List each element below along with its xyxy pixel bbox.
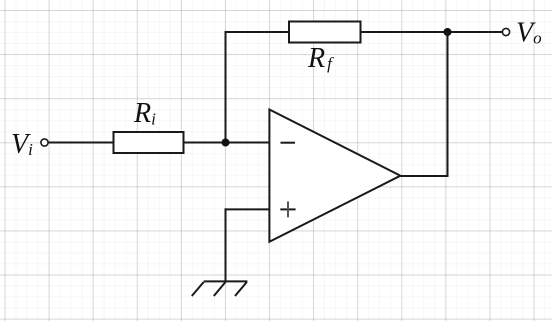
wire op-amp output bbox=[400, 175, 449, 177]
wire Rf to output node bbox=[361, 31, 503, 33]
wire non-inverting input bbox=[225, 208, 270, 210]
wire feedback top to Rf bbox=[225, 31, 291, 33]
svg-text:Vi: Vi bbox=[11, 129, 33, 160]
terminal Vo bbox=[502, 28, 509, 35]
svg-text:Ri: Ri bbox=[133, 98, 156, 129]
resistor Ri bbox=[114, 132, 184, 153]
label V_o bbox=[516, 18, 542, 49]
ground bbox=[192, 281, 248, 296]
wire down to ground bbox=[225, 208, 227, 281]
wire junction up to feedback bbox=[225, 31, 227, 143]
resistor Rf bbox=[289, 22, 361, 43]
label R_i bbox=[133, 98, 156, 129]
op-amp U1 bbox=[269, 110, 400, 242]
wire output node down bbox=[447, 32, 449, 177]
label V_i bbox=[11, 129, 33, 160]
node junction at inverting input bbox=[222, 139, 230, 147]
wire Ri to op-amp inverting input bbox=[184, 142, 270, 144]
svg-text:Rf: Rf bbox=[307, 43, 334, 74]
svg-text:Vo: Vo bbox=[516, 18, 542, 49]
wire Vi to Ri bbox=[48, 142, 114, 144]
terminal Vi bbox=[41, 139, 48, 146]
label R_f bbox=[307, 43, 334, 74]
node junction at output bbox=[444, 28, 452, 36]
